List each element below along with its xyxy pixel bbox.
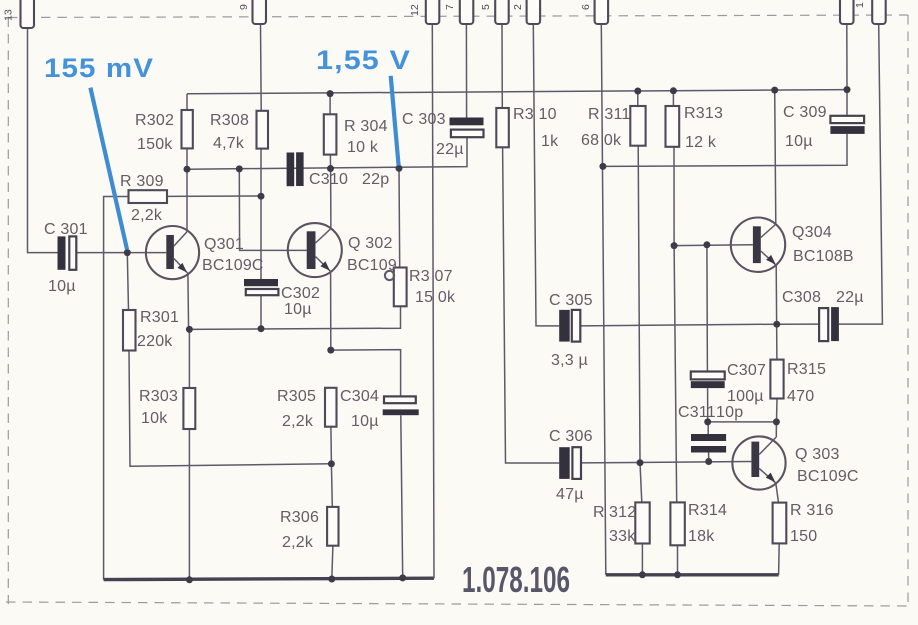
- resistor R304: [324, 114, 337, 154]
- wire C302 bottom to emitter rail: [260, 296, 262, 329]
- junction R303 top: [186, 326, 193, 333]
- wire R310 bottom long run to C306: [503, 147, 560, 463]
- capacitor C302: [244, 279, 278, 295]
- label R312 value: [593, 504, 636, 545]
- resistor R302: [182, 110, 193, 148]
- label R311 value: [581, 106, 631, 149]
- wire R302 bottom to node A: [186, 148, 188, 169]
- transistor Q304: [731, 218, 785, 272]
- wire Q303 collector up to bootstrap node: [775, 422, 777, 437]
- junction pin6 ground tap: [599, 163, 606, 170]
- svg-text:18k: 18k: [688, 528, 715, 545]
- svg-text:C310: C310: [309, 171, 348, 188]
- label C302 value: [281, 285, 320, 318]
- wire C301 to Q301 base: [77, 252, 167, 254]
- junction R314 ground: [674, 571, 681, 578]
- wire R311 top to supply rail: [637, 91, 639, 106]
- svg-text:220k: 220k: [137, 333, 173, 350]
- svg-text:BC109C: BC109C: [797, 468, 859, 485]
- wire Q303 emitter down to R316 top: [776, 483, 779, 503]
- pin 9: [238, 0, 266, 24]
- svg-text:155 mV: 155 mV: [44, 53, 154, 83]
- wire R305 node to C304 top: [331, 350, 401, 397]
- label R310 value: [513, 106, 559, 150]
- svg-text:R313: R313: [684, 105, 723, 122]
- junction input base node: [124, 249, 131, 256]
- label Q304 type: [792, 224, 854, 265]
- label R305 value: [277, 388, 316, 430]
- wire C307 bottom to bootstrap node: [707, 388, 709, 422]
- junction Q304 emitter output: [773, 321, 780, 328]
- wire R309 left leg down to ground rail: [104, 197, 129, 580]
- svg-text:2: 2: [512, 4, 524, 10]
- junction C307 Q304 base: [703, 241, 710, 248]
- svg-text:Q301: Q301: [204, 236, 244, 253]
- svg-text:312: 312: [609, 504, 636, 521]
- resistor R307: [394, 268, 407, 307]
- junction R306 ground: [328, 576, 335, 583]
- wire R308 bottom through node to C302 top: [260, 149, 262, 280]
- svg-text:Q304: Q304: [792, 224, 832, 241]
- capacitor C303: [450, 118, 484, 138]
- wire Q302 collector up: [330, 169, 332, 229]
- svg-text:15 0k: 15 0k: [415, 289, 456, 306]
- pin 13: [3, 0, 35, 28]
- wire Q304 base bias down to R314 top: [674, 246, 677, 503]
- svg-text:10µ: 10µ: [351, 413, 379, 430]
- pin 5: [480, 0, 509, 24]
- svg-text:C 301: C 301: [44, 221, 88, 238]
- svg-text:4,7k: 4,7k: [213, 135, 245, 152]
- svg-text:10µ: 10µ: [284, 301, 312, 318]
- wire ground link pin6 node to C309 bottom: [603, 134, 847, 166]
- label C311 value: [678, 404, 743, 421]
- pin 1: [840, 0, 866, 24]
- svg-text:R301: R301: [140, 309, 179, 326]
- svg-text:R3 10: R3 10: [513, 106, 557, 123]
- svg-text:R305: R305: [277, 388, 316, 405]
- label R301 value: [137, 309, 179, 350]
- svg-text:9: 9: [238, 4, 250, 10]
- wire R307 top to node B: [398, 168, 401, 267]
- svg-text:C302: C302: [281, 285, 320, 302]
- wire pin2 down to C305: [533, 24, 559, 326]
- junction C304 ground: [399, 574, 406, 581]
- capacitor C309: [830, 116, 864, 134]
- label Q301 type: [202, 236, 264, 274]
- svg-text:C307: C307: [727, 362, 766, 379]
- junction Q302 base takeoff: [236, 165, 243, 172]
- junction R313 Q304 base: [671, 242, 678, 249]
- svg-text:C304: C304: [340, 388, 379, 405]
- wire Q304 base: [674, 244, 753, 247]
- label C301 value: [44, 221, 88, 295]
- svg-text:R314: R314: [688, 502, 727, 519]
- wire Q301 emitter down: [187, 273, 190, 329]
- svg-text:7: 7: [444, 4, 456, 10]
- label C306 value: [549, 428, 593, 503]
- wire R303 bottom to ground rail: [188, 429, 190, 580]
- label R304 value: [344, 118, 388, 156]
- junction Q302 emitter R305: [327, 347, 334, 354]
- junction R304 supply: [327, 90, 334, 97]
- pin 2: [512, 0, 540, 24]
- svg-text:R 309: R 309: [120, 173, 164, 190]
- wire C304 bottom to ground rail: [401, 415, 403, 578]
- svg-text:C 309: C 309: [783, 104, 827, 121]
- resistor R308: [257, 111, 269, 149]
- resistor R305: [325, 388, 337, 427]
- label C304 value: [340, 388, 379, 430]
- svg-text:3,3 µ: 3,3 µ: [551, 352, 588, 369]
- label R309 value: [120, 173, 164, 224]
- wire C308 right to output pin riser: [839, 24, 883, 324]
- svg-text:150k: 150k: [137, 136, 173, 153]
- capacitor C304: [383, 396, 419, 415]
- svg-text:C311: C311: [678, 404, 716, 421]
- wire bootstrap node down to C311 top: [707, 422, 709, 434]
- svg-text:R 311: R 311: [588, 106, 631, 123]
- junction Q304 collector supply: [771, 87, 778, 94]
- resistor R312: [635, 502, 649, 543]
- svg-text:R 316: R 316: [790, 502, 834, 519]
- pin output: [872, 0, 886, 24]
- resistor R315: [770, 360, 783, 399]
- wire pin1 down to supply rail: [846, 24, 848, 90]
- svg-text:10 k: 10 k: [347, 139, 379, 156]
- wire supply rail to C309 top: [846, 90, 848, 116]
- svg-text:1k: 1k: [541, 133, 559, 150]
- label Q302 type: [347, 235, 397, 274]
- svg-text:Q 303: Q 303: [795, 446, 840, 463]
- svg-text:R315: R315: [787, 361, 826, 378]
- wire R314 bottom to ground rail: [677, 545, 679, 575]
- wire 1,55 V pointer: [391, 76, 399, 166]
- junction C307 bootstrap: [704, 418, 711, 425]
- wire R315 bottom to bootstrap node: [776, 399, 779, 422]
- svg-text:5: 5: [480, 4, 492, 10]
- svg-text:33k: 33k: [609, 528, 636, 545]
- wire R306 bottom to ground rail: [332, 546, 333, 579]
- pin 6: [580, 0, 608, 24]
- wire node A branch down to Q302 base: [239, 169, 306, 251]
- wire R313 top to supply rail: [672, 91, 674, 106]
- svg-text:22µ: 22µ: [436, 141, 464, 158]
- junction R304 bottom collector node: [327, 165, 334, 172]
- junction R312 Q303 base: [637, 459, 644, 466]
- capacitor C307: [691, 372, 725, 389]
- svg-text:BC108B: BC108B: [793, 248, 854, 265]
- junction R313 supply: [670, 87, 677, 94]
- junction C302 bottom: [258, 325, 265, 332]
- wire top supply rail: [187, 90, 847, 94]
- svg-text:C 306: C 306: [549, 428, 593, 445]
- svg-text:22p: 22p: [362, 171, 389, 188]
- junction R303 ground: [186, 576, 193, 583]
- wire C307 top to Q304 base node: [706, 245, 709, 372]
- wire R313 bottom to Q304 base node: [673, 147, 675, 246]
- wire pin7 down to C303 top: [465, 24, 467, 118]
- capacitor C301: [58, 236, 77, 269]
- pin 12: [409, 0, 439, 24]
- label R302 value: [135, 112, 174, 153]
- svg-text:12 k: 12 k: [685, 134, 717, 151]
- junction 1.55V probe node: [396, 165, 403, 172]
- svg-text:C308: C308: [782, 289, 821, 306]
- wire R312 bottom to ground rail: [641, 544, 643, 575]
- wire pin13 to C301 input: [28, 24, 58, 253]
- wire bootstrap node horizontal: [708, 421, 777, 423]
- junction Q303 collector bootstrap: [773, 418, 780, 425]
- ground rail right block: [606, 573, 779, 576]
- svg-text:R3 07: R3 07: [409, 268, 453, 285]
- wire R304 bottom to collector node: [329, 155, 331, 169]
- label R307 value: [409, 268, 456, 306]
- wire pin9 down to R308 top: [260, 24, 263, 111]
- wire C311 bottom to Q303 base: [708, 453, 710, 462]
- svg-text:10µ: 10µ: [785, 133, 813, 150]
- svg-text:22µ: 22µ: [836, 289, 864, 306]
- svg-text:Q 302: Q 302: [348, 235, 393, 252]
- junction C311 Q303 base: [705, 458, 712, 465]
- svg-text:13: 13: [3, 9, 15, 21]
- wire R301 bottom to feedback rail: [129, 351, 331, 467]
- label C307 value: [727, 362, 766, 405]
- wire R316 bottom to ground rail: [778, 543, 781, 574]
- wire feedback node to R306 top: [330, 464, 333, 507]
- wire Q301 collector up to node A: [186, 169, 188, 232]
- wire R312 top to base node: [640, 463, 642, 503]
- svg-text:C 303: C 303: [402, 111, 446, 128]
- wire pin6 ground drop: [601, 24, 606, 575]
- wire R303 top to emitter rail: [188, 329, 190, 388]
- capacitor C308: [819, 307, 839, 341]
- wire Q303 base from C306: [581, 462, 751, 463]
- svg-text:2,2k: 2,2k: [282, 534, 314, 551]
- wire R311 bottom long drop to Q303 base node: [638, 146, 640, 463]
- svg-text:150: 150: [790, 528, 817, 545]
- wire C305 output run to Q304 emitter node: [580, 324, 777, 326]
- ground rail left block: [104, 578, 434, 579]
- wire base node to R301 top: [127, 253, 128, 310]
- svg-text:6: 6: [580, 4, 592, 10]
- resistor R306: [327, 507, 338, 546]
- wire emitter node to C308 left plate: [777, 323, 819, 325]
- label R315 value: [787, 361, 826, 405]
- svg-text:1.078.106: 1.078.106: [462, 559, 570, 600]
- label R303 value: [139, 388, 178, 427]
- capacitor C306: [559, 447, 581, 479]
- junction pin1 supply corner: [844, 86, 851, 93]
- capacitor C311: [691, 434, 726, 453]
- wire Q304 emitter down to R315 top: [775, 265, 778, 359]
- svg-text:R303: R303: [139, 388, 178, 405]
- svg-text:C 305: C 305: [549, 292, 593, 309]
- label R316 value: [790, 502, 834, 545]
- svg-text:68 0k: 68 0k: [581, 132, 622, 149]
- wire pin12 down to left ground rail: [432, 24, 434, 578]
- resistor R316: [773, 503, 787, 544]
- svg-text:BC109C: BC109C: [202, 257, 264, 274]
- svg-text:R: R: [593, 504, 605, 521]
- wire R309 right to R308 node: [167, 195, 261, 197]
- svg-text:47µ: 47µ: [556, 486, 584, 503]
- pin 7: [444, 0, 473, 24]
- junction feedback node: [328, 460, 335, 467]
- wire Q304 collector up to supply rail: [775, 90, 776, 224]
- wire Q302 emitter down to R305 node: [330, 272, 332, 351]
- label C310 value: [309, 171, 389, 188]
- label R313 value: [684, 105, 723, 151]
- svg-text:R 304: R 304: [344, 118, 388, 135]
- junction R309 R308 node: [258, 193, 265, 200]
- svg-text:R308: R308: [210, 112, 249, 129]
- resistor R313: [666, 106, 680, 147]
- wire pin5 down to R310 top: [501, 24, 503, 108]
- resistor R309: [129, 190, 168, 203]
- transistor Q302: [288, 223, 342, 277]
- resistor R311: [630, 106, 645, 146]
- svg-text:R306: R306: [280, 509, 319, 526]
- capacitor C305: [559, 310, 580, 342]
- transistor Q301: [146, 226, 199, 279]
- transistor Q303: [732, 436, 785, 489]
- svg-text:12: 12: [409, 4, 421, 16]
- junction Q301 collector node A: [184, 166, 191, 173]
- resistor R314: [670, 502, 684, 545]
- wire R305 bottom to feedback node: [330, 427, 333, 464]
- label C308 value: [782, 289, 864, 306]
- resistor R303: [183, 388, 195, 429]
- svg-text:100µ: 100µ: [727, 388, 764, 405]
- wire emitter rail to R307 bottom: [189, 306, 401, 329]
- label Q303 type: [795, 446, 859, 485]
- svg-text:2,2k: 2,2k: [131, 207, 163, 224]
- label C305 value: [549, 292, 593, 369]
- resistor R310: [496, 108, 509, 147]
- junction R311 supply: [634, 88, 641, 95]
- label C303 value: [402, 111, 464, 158]
- wire R304 top to supply rail: [329, 94, 331, 115]
- svg-text:1,55 V: 1,55 V: [316, 45, 411, 75]
- svg-text:10k: 10k: [141, 410, 168, 427]
- label R308 value: [210, 112, 249, 152]
- svg-text:10p: 10p: [716, 404, 743, 421]
- wire node A horizontal run to C303 bottom corner: [187, 138, 467, 169]
- printed mark near R307: [385, 271, 394, 280]
- wire R302 top to supply rail corner: [186, 94, 188, 110]
- svg-text:R302: R302: [135, 112, 174, 129]
- resistor R301: [123, 310, 136, 351]
- wire 155 mV pointer: [90, 88, 127, 250]
- label C309 value: [783, 104, 827, 150]
- label R306 value: [280, 509, 319, 551]
- junction R312 ground: [639, 571, 646, 578]
- capacitor C310: [287, 152, 304, 186]
- svg-text:1: 1: [854, 2, 866, 8]
- label R314 value: [688, 502, 727, 545]
- svg-text:2,2k: 2,2k: [282, 413, 314, 430]
- svg-text:470: 470: [787, 388, 814, 405]
- svg-text:10µ: 10µ: [48, 278, 76, 295]
